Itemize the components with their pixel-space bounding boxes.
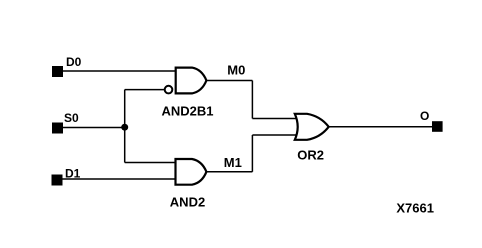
svg-text:X7661: X7661 xyxy=(396,201,434,216)
label D1 xyxy=(65,166,81,180)
svg-text:D1: D1 xyxy=(65,166,81,180)
label M1 xyxy=(224,155,242,170)
svg-text:S0: S0 xyxy=(64,111,79,125)
wire M0 horizontal from AND2B1 output xyxy=(206,80,252,82)
svg-text:M1: M1 xyxy=(224,155,242,170)
wire S0 to junction xyxy=(63,127,125,129)
label AND2B1 xyxy=(162,104,214,119)
label S0 xyxy=(64,111,79,125)
wire M0 to OR2 pin1 xyxy=(252,118,296,120)
svg-text:AND2: AND2 xyxy=(170,194,205,209)
wire S0 branch to AND2B1 bubble xyxy=(125,89,164,91)
svg-text:AND2B1: AND2B1 xyxy=(162,104,214,119)
junction S0 node xyxy=(121,124,128,131)
wire M1 to OR2 pin2 xyxy=(252,134,296,136)
label AND2 xyxy=(170,194,205,209)
svg-text:O: O xyxy=(420,109,429,123)
svg-text:D0: D0 xyxy=(66,55,82,69)
label OR2 xyxy=(297,148,324,163)
label M0 xyxy=(227,63,245,78)
gate OR2 xyxy=(295,114,329,140)
wire S0 branch to AND2 pin1 xyxy=(125,162,176,164)
gate AND2 xyxy=(176,159,207,185)
wire O from OR2 output xyxy=(329,126,433,128)
wire M1 horizontal from AND2 output xyxy=(206,171,252,173)
input terminal D1 xyxy=(52,175,63,186)
label D0 xyxy=(66,55,82,69)
input terminal D0 xyxy=(52,66,63,77)
gate AND2B1 xyxy=(176,68,207,94)
wire D1 to AND2 pin2 xyxy=(63,178,176,180)
wire M0 vertical drop xyxy=(251,81,253,119)
wire S0 vertical bus xyxy=(124,90,126,163)
wire M1 vertical rise xyxy=(251,135,253,172)
input terminal S0 xyxy=(52,123,63,134)
label X7661 xyxy=(396,201,434,216)
wire D0 to AND2B1 pin1 xyxy=(63,70,176,72)
output terminal O xyxy=(432,121,443,132)
svg-text:OR2: OR2 xyxy=(297,148,324,163)
inverter bubble AND2B1 input xyxy=(165,86,173,94)
svg-text:M0: M0 xyxy=(227,63,245,78)
label O xyxy=(420,109,429,123)
